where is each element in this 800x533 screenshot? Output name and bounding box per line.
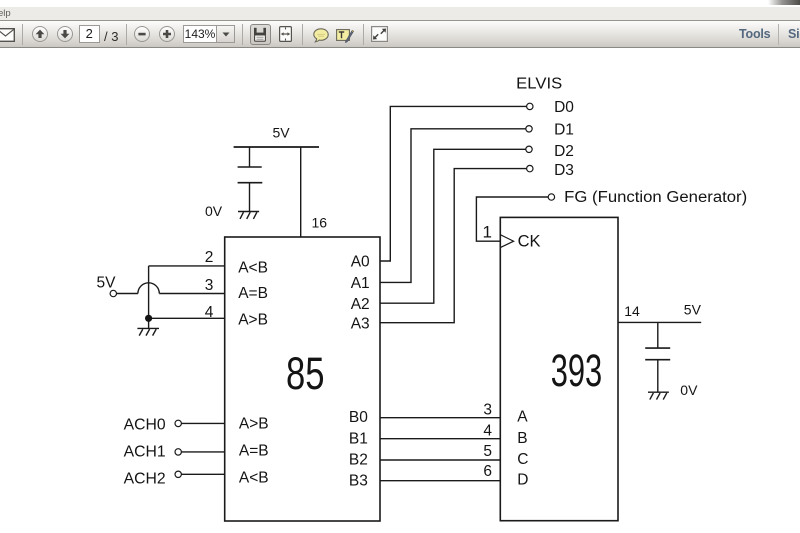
svg-text:A0: A0 — [351, 254, 370, 271]
wire pin 4 — [149, 317, 225, 319]
wire D3 to A3 — [380, 169, 527, 323]
terminal FG — [548, 194, 554, 200]
svg-text:ELVIS: ELVIS — [516, 75, 562, 92]
wire ACH2 to A<B — [181, 473, 224, 475]
svg-text:C: C — [517, 451, 528, 468]
wire pin 14 of U2 to 5V — [618, 321, 701, 323]
wire pin 2 — [149, 265, 225, 267]
svg-text:ACH1: ACH1 — [124, 443, 166, 460]
terminal D0 — [527, 103, 533, 109]
wire B2 to pin5 C — [380, 459, 500, 461]
svg-text:16: 16 — [312, 214, 328, 230]
svg-text:A<B: A<B — [239, 470, 269, 487]
junction dot — [145, 315, 152, 322]
terminal D3 — [527, 165, 533, 171]
clock input triangle on U2 — [500, 235, 513, 248]
svg-text:A2: A2 — [351, 296, 370, 313]
svg-text:D3: D3 — [554, 162, 574, 179]
terminal D1 — [526, 126, 532, 132]
sign/typewriter icon — [336, 28, 354, 43]
svg-text:ACH2: ACH2 — [124, 470, 166, 487]
svg-text:ACH0: ACH0 — [124, 416, 166, 433]
svg-text:A=B: A=B — [238, 285, 268, 302]
svg-text:0V: 0V — [205, 203, 223, 219]
wire rail to pin 16 of U1 — [300, 147, 302, 237]
svg-text:A1: A1 — [351, 275, 370, 292]
svg-text:3: 3 — [205, 277, 214, 294]
wire B1 to pin4 B — [380, 438, 500, 440]
wire ACH1 to A=B — [181, 451, 224, 453]
svg-text:0V: 0V — [680, 382, 698, 398]
comparator U1 85 box — [225, 237, 380, 521]
wire rail to capacitor C1 — [249, 147, 251, 167]
wire D1 to A1 — [380, 129, 526, 283]
terminal ACH1 — [175, 449, 181, 455]
wire 5V terminal to hop — [117, 293, 138, 295]
svg-text:85: 85 — [286, 348, 325, 399]
page fit icon — [279, 26, 292, 42]
svg-text:D: D — [517, 472, 528, 489]
fullscreen icon — [371, 26, 388, 42]
svg-text:393: 393 — [551, 345, 603, 396]
svg-text:B2: B2 — [349, 452, 368, 469]
svg-text:A=B: A=B — [239, 443, 269, 460]
svg-text:5V: 5V — [97, 275, 117, 292]
svg-text:B1: B1 — [349, 430, 368, 447]
wire hop over vertical net — [138, 283, 159, 294]
svg-text:14: 14 — [624, 303, 640, 319]
svg-text:A>B: A>B — [238, 312, 268, 329]
svg-text:B0: B0 — [349, 409, 368, 426]
svg-text:4: 4 — [205, 304, 214, 321]
terminal 5V input — [110, 290, 116, 296]
capacitor C2 — [645, 347, 670, 349]
ground under C2 — [648, 392, 669, 399]
svg-text:6: 6 — [483, 463, 492, 480]
wire C2 to ground — [657, 360, 659, 393]
svg-text:FG (Function Generator): FG (Function Generator) — [564, 189, 747, 206]
svg-text:5V: 5V — [684, 302, 702, 318]
counter U2 393 box — [500, 217, 618, 520]
svg-text:5: 5 — [483, 443, 492, 460]
svg-text:A: A — [517, 409, 528, 426]
wire hop to pin 3 — [159, 293, 224, 295]
svg-text:3: 3 — [483, 402, 492, 419]
svg-text:A<B: A<B — [238, 259, 268, 276]
wire D2 to A2 — [380, 149, 526, 303]
wire C1 to ground — [249, 183, 251, 212]
svg-text:B3: B3 — [349, 473, 368, 490]
vertical net at x148.6 — [148, 266, 150, 329]
svg-text:D2: D2 — [554, 143, 574, 160]
ground under C1 — [238, 212, 259, 219]
svg-text:D0: D0 — [554, 99, 574, 116]
svg-text:4: 4 — [483, 422, 492, 439]
wire 5V rail to capacitor C2 — [657, 322, 659, 347]
speech bubble icon — [313, 28, 329, 43]
svg-text:A3: A3 — [351, 315, 370, 332]
svg-text:A>B: A>B — [239, 416, 269, 433]
power rail 5V top-left — [234, 146, 319, 148]
terminal ACH2 — [175, 471, 181, 477]
svg-text:5V: 5V — [273, 124, 291, 140]
envelope icon — [0, 28, 15, 42]
wire B0 to pin3 A — [380, 417, 500, 419]
terminal ACH0 — [175, 420, 181, 426]
svg-text:CK: CK — [518, 233, 541, 251]
svg-text:1: 1 — [483, 223, 492, 242]
wire B3 to pin6 D — [380, 480, 500, 482]
toolbar — [0, 21, 800, 48]
window top strip — [0, 0, 800, 7]
terminal D2 — [526, 146, 532, 152]
wire FG to CK pin1 — [476, 197, 548, 241]
svg-text:B: B — [517, 430, 527, 447]
svg-text:D1: D1 — [554, 121, 574, 138]
svg-text:2: 2 — [205, 249, 214, 266]
capacitor C1 — [238, 166, 262, 168]
wire D0 to A0 — [380, 106, 527, 261]
wire ACH0 to A>B — [181, 422, 224, 424]
pressed printer-like icon — [250, 24, 272, 46]
ground under 5V input — [137, 328, 159, 335]
